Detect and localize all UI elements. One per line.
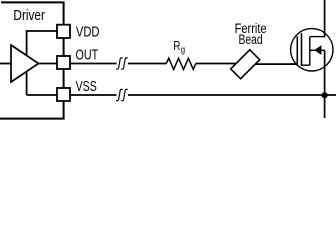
pin VDD	[57, 25, 70, 38]
gate bar	[296, 36, 298, 64]
resistor Rg	[166, 58, 195, 69]
wire bead to gate	[250, 63, 297, 65]
drain stub	[310, 36, 325, 38]
label VDD	[76, 23, 100, 40]
label VSS	[76, 78, 97, 94]
body arrow	[314, 45, 321, 55]
wire OUT segment 1	[70, 63, 117, 65]
body line right	[321, 49, 325, 51]
junction dot	[322, 92, 328, 98]
label Ferrite	[235, 20, 267, 37]
svg-text:OUT: OUT	[76, 46, 99, 63]
gate lead	[290, 63, 297, 65]
transistor Q1 (MOSFET) circle	[291, 29, 333, 71]
svg-text:VDD: VDD	[76, 23, 100, 40]
internal bus	[309, 37, 311, 66]
svg-text:VSS: VSS	[76, 78, 97, 94]
wire OUT segment 2	[128, 63, 166, 65]
pin OUT	[57, 56, 70, 69]
channel bar	[301, 33, 303, 66]
line break symbol on VSS wire	[116, 89, 127, 100]
body line left	[310, 49, 315, 51]
wire VSS pin to buffer	[27, 94, 57, 96]
wire apex to OUT pin	[39, 63, 58, 65]
label Bead	[239, 32, 263, 48]
wire VSS segment 1	[70, 94, 117, 96]
label Rg	[173, 40, 180, 53]
wire resistor to bead	[196, 63, 240, 65]
pin VSS	[57, 88, 70, 101]
line break symbol on OUT wire	[116, 58, 127, 69]
op-amp U1 (driver buffer triangle)	[11, 45, 39, 82]
svg-text:g: g	[181, 44, 185, 55]
wire buffer power vertical	[26, 30, 28, 95]
wire input stub	[0, 63, 11, 65]
driver box	[0, 2, 64, 118]
svg-text:R: R	[173, 40, 180, 53]
label OUT	[76, 46, 99, 63]
svg-text:Bead: Bead	[239, 32, 263, 48]
svg-text:Driver: Driver	[13, 7, 45, 24]
wire VSS rail to right edge	[128, 94, 336, 96]
source line down	[324, 50, 326, 118]
wire VDD pin to buffer	[27, 30, 57, 32]
ferrite bead FB1	[231, 50, 260, 79]
source stub	[302, 64, 310, 66]
label Driver	[13, 7, 45, 24]
drain line to top	[324, 0, 326, 37]
